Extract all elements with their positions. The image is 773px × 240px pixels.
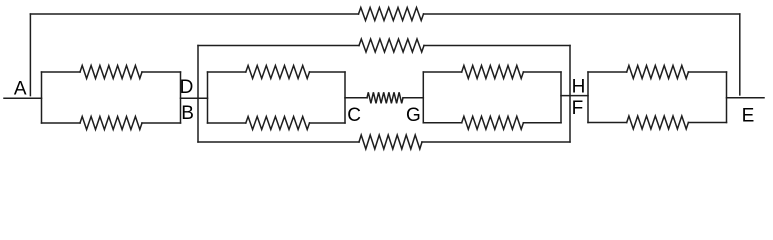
wire box3 left edge: [422, 72, 424, 123]
svg-text:G: G: [406, 105, 421, 126]
svg-text:C: C: [347, 105, 361, 126]
wire box1 bottom-right lead: [142, 122, 181, 124]
wire box2 bottom-left lead: [208, 122, 246, 124]
wire box1 bottom-left lead: [42, 122, 81, 124]
resistor R8 series C-G: [367, 92, 403, 103]
wire right outer vertical: [739, 14, 741, 95]
svg-text:F: F: [572, 98, 584, 119]
resistor R4 middle-top: [359, 39, 424, 52]
wire box4 bottom-left lead: [588, 122, 627, 124]
wire box4 top-left lead: [588, 71, 627, 73]
wire E lead: [727, 97, 765, 99]
wire middle-group bottom left segment: [198, 141, 359, 143]
wire box1 left edge: [41, 72, 43, 123]
wire box4 top-right lead: [688, 71, 726, 73]
wire box4 right edge: [726, 72, 728, 123]
wire top-outer left segment: [30, 13, 358, 15]
resistor R11 box4-top: [627, 66, 689, 79]
svg-text:D: D: [180, 77, 194, 98]
wire box3 top-right lead: [523, 71, 561, 73]
wire box3 bottom-left lead: [423, 122, 461, 124]
wire box1 right edge: [180, 72, 182, 123]
wire C lead: [345, 97, 367, 99]
resistor R10 box3-bottom: [462, 116, 524, 129]
resistor R6 box2-top: [246, 66, 310, 79]
svg-text:B: B: [181, 103, 194, 124]
svg-text:A: A: [14, 79, 27, 100]
wire D-B junction link: [181, 97, 208, 99]
svg-text:H: H: [572, 76, 586, 97]
resistor R3 box1-bottom: [80, 117, 142, 130]
wire middle-group right edge: [569, 46, 571, 143]
svg-text:E: E: [742, 106, 755, 127]
wire box4 left edge: [587, 72, 589, 123]
wire box2 bottom-right lead: [310, 122, 346, 124]
resistor R5 middle-bottom: [359, 135, 422, 149]
wire left outer vertical: [29, 14, 31, 96]
wire top-outer right segment: [424, 13, 740, 15]
wire box2 top-left lead: [208, 71, 246, 73]
wire G lead: [403, 97, 423, 99]
resistor R1 top-outer: [359, 8, 424, 21]
wire middle-group left edge: [197, 46, 199, 143]
resistor R12 box4-bottom: [627, 116, 689, 129]
resistor R2 box1-top: [80, 66, 142, 79]
wire box2 top-right lead: [310, 71, 346, 73]
resistor R9 box3-top: [462, 66, 524, 79]
wire A lead: [4, 97, 42, 99]
wire box2 right edge: [344, 72, 346, 123]
wire box3 right edge: [560, 72, 562, 123]
wire middle-group bottom right segment: [422, 141, 570, 143]
wire H-F junction link: [561, 95, 588, 97]
wire box3 bottom-right lead: [523, 122, 561, 124]
wire box4 bottom-right lead: [688, 122, 726, 124]
resistor R7 box2-bottom: [246, 117, 310, 130]
wire box1 top-right lead: [142, 71, 181, 73]
wire box3 top-left lead: [423, 71, 461, 73]
wire middle-group top left segment: [198, 45, 359, 47]
wire box1 top-left lead: [42, 71, 81, 73]
wire middle-group top right segment: [424, 45, 570, 47]
wire box2 left edge: [207, 72, 209, 123]
